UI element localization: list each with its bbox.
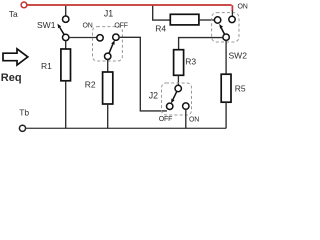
J1 common contact	[105, 53, 111, 59]
svg-text:R4: R4	[155, 23, 166, 33]
J1 arm	[109, 44, 113, 53]
svg-text:ON: ON	[238, 4, 248, 11]
wire: J1 common down to R2	[107, 60, 109, 73]
wire: J1 OFF right then down to J2 OFF	[119, 37, 167, 111]
svg-text:ON: ON	[189, 117, 199, 124]
svg-text:OFF: OFF	[114, 22, 127, 29]
J2 OFF contact	[167, 103, 173, 109]
wire: R1 bottom to bus	[65, 81, 67, 129]
wire: R4 left stub from red bus	[153, 6, 171, 20]
wire: R2 bottom to bus	[107, 104, 109, 128]
jumper J1 contacts	[97, 34, 119, 60]
svg-text:R2: R2	[85, 79, 96, 89]
wire: SW1 common down to R1	[65, 41, 67, 50]
svg-text:SW1: SW1	[37, 20, 56, 30]
switch SW2 dashed box	[212, 13, 239, 42]
svg-text:Tb: Tb	[19, 107, 29, 117]
terminal Ta	[21, 2, 27, 8]
top red bus wire	[27, 5, 232, 11]
svg-text:R1: R1	[41, 61, 52, 71]
jumper J2 dashed box	[162, 83, 192, 115]
SW2 right contact	[229, 16, 235, 22]
wire: SW1 common to J1 ON	[69, 37, 97, 39]
resistor R3	[174, 50, 184, 76]
terminal Tb	[19, 125, 25, 131]
switch SW1	[57, 16, 68, 41]
svg-text:Req: Req	[1, 72, 22, 84]
wire: R3 top tee to SW2 common	[179, 38, 223, 50]
Req block arrow	[3, 49, 28, 65]
switch SW2	[214, 16, 235, 40]
SW1 common contact	[62, 34, 68, 40]
SW2 left contact	[214, 17, 220, 23]
SW1 arm	[60, 27, 64, 34]
J2 common contact	[175, 85, 181, 91]
wire: R3 bottom to J2 common	[177, 75, 179, 85]
wire: R4 right to SW2 left contact	[199, 19, 215, 21]
J2 ON contact	[183, 103, 189, 109]
wire: SW2 right contact stub to red bus	[231, 11, 233, 17]
SW2 arm	[221, 28, 224, 34]
J1 ON contact	[97, 35, 103, 41]
SW1 top contact	[62, 16, 68, 22]
jumper J1 dashed box	[93, 27, 123, 61]
resistor R2	[103, 72, 113, 104]
resistor R5	[221, 74, 231, 102]
resistor R1	[61, 49, 71, 81]
svg-text:SW2: SW2	[229, 50, 248, 60]
svg-text:Ta: Ta	[9, 9, 18, 19]
SW2 common contact	[223, 34, 229, 40]
svg-text:R3: R3	[185, 57, 196, 67]
J2 arm	[173, 91, 177, 99]
J1 OFF contact	[113, 34, 119, 40]
resistor R4	[170, 14, 199, 25]
svg-text:OFF: OFF	[159, 116, 172, 123]
bottom bus wire	[26, 127, 226, 129]
wire: R5 bottom to bus	[225, 102, 227, 128]
jumper J2 contacts	[167, 85, 190, 109]
svg-text:J1: J1	[104, 9, 113, 19]
svg-text:ON: ON	[83, 23, 93, 30]
wire: SW1 top stub from red bus	[65, 6, 67, 16]
svg-text:R5: R5	[235, 83, 246, 93]
svg-text:J2: J2	[149, 90, 158, 100]
wire: SW2 common down to R5	[225, 40, 227, 74]
wire: J2 ON contact down to bus	[185, 109, 187, 128]
